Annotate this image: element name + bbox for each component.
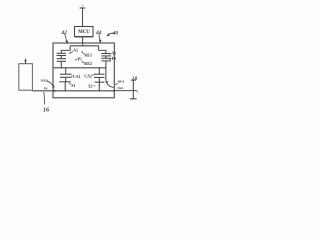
wire A2 to P2 xyxy=(105,56,107,58)
svg-text:RE3: RE3 xyxy=(41,79,48,83)
svg-text:40: 40 xyxy=(112,31,119,37)
svg-text:A1: A1 xyxy=(73,47,78,52)
leader 42 xyxy=(65,34,67,41)
wire right control branch xyxy=(99,46,106,54)
wire supply to MCU xyxy=(82,8,84,27)
leader S1 xyxy=(69,83,71,85)
wire end tick xyxy=(136,91,139,93)
wire CA2 to S2 xyxy=(98,77,100,82)
supply terminal T-bar xyxy=(80,5,86,9)
leader A2 xyxy=(109,53,111,54)
node junction S1/bottom bus xyxy=(64,90,66,92)
bottom bus xyxy=(53,90,114,92)
capacitor P1 xyxy=(57,59,66,62)
terminal 18 xyxy=(130,80,137,99)
node junction S2/bottom bus xyxy=(99,90,101,92)
leader P2 xyxy=(110,58,112,61)
svg-text:42: 42 xyxy=(60,30,67,36)
leader RE3 xyxy=(46,81,53,86)
wire IN xyxy=(32,90,53,92)
reference labels xyxy=(43,30,138,114)
switch S1 xyxy=(59,82,71,91)
svg-text:RE4: RE4 xyxy=(118,80,125,84)
mid bus xyxy=(53,67,106,69)
leader P1 xyxy=(75,59,77,60)
svg-text:P1: P1 xyxy=(78,57,82,62)
wire A1 to P1 xyxy=(60,56,62,59)
capacitor CA1 xyxy=(60,74,72,77)
leader 40 xyxy=(108,33,115,34)
svg-text:S2: S2 xyxy=(88,83,92,88)
controller box MCU xyxy=(75,27,94,37)
scan double line under MCU box xyxy=(75,37,93,39)
wire P2 chain down xyxy=(105,61,107,80)
node junction P1/mid bus xyxy=(61,67,62,68)
big network box 40 xyxy=(53,43,114,98)
leader RE2 xyxy=(83,62,85,63)
wire bus to CA2 xyxy=(98,68,100,74)
svg-text:RE2: RE2 xyxy=(84,61,92,66)
leader A1 xyxy=(70,52,73,53)
svg-text:IN: IN xyxy=(44,86,48,90)
capacitor A1 xyxy=(57,53,66,55)
node output junction xyxy=(113,90,115,92)
switch S2 xyxy=(95,82,105,90)
svg-text:RE1: RE1 xyxy=(84,52,92,57)
wire bus to CA1 xyxy=(65,68,67,74)
leader S2 xyxy=(94,85,96,88)
leader RE4 xyxy=(115,83,117,85)
svg-text:18: 18 xyxy=(132,76,138,82)
wire MCU to network box xyxy=(82,37,84,46)
wire OUT xyxy=(114,90,137,92)
svg-text:44: 44 xyxy=(95,30,102,36)
capacitor CA2 xyxy=(94,74,105,77)
svg-text:CA2: CA2 xyxy=(84,73,92,78)
svg-text:Out: Out xyxy=(117,86,124,90)
svg-text:A2: A2 xyxy=(111,51,116,56)
capacitor P2 xyxy=(101,58,111,61)
svg-text:16: 16 xyxy=(43,106,50,113)
leader RE1 xyxy=(82,52,84,54)
resonator RE3 input element xyxy=(19,64,33,90)
leader 16 xyxy=(43,92,46,104)
wire P1 to mid bus xyxy=(60,61,62,68)
svg-text:CA1: CA1 xyxy=(73,74,81,79)
leader CA1 xyxy=(71,75,73,78)
node input junction xyxy=(53,90,55,92)
leader 44 xyxy=(99,34,100,41)
svg-text:S1: S1 xyxy=(71,83,75,88)
svg-text:P2: P2 xyxy=(112,56,116,61)
arrow above input element xyxy=(25,60,27,64)
wire CA1 to S1 xyxy=(65,77,67,82)
arrowheads for leaders xyxy=(44,33,118,104)
wire arc to output node xyxy=(106,80,114,87)
wire left control branch xyxy=(61,46,70,54)
node junction CA2/mid bus xyxy=(99,67,100,68)
node: control split bus xyxy=(70,45,99,47)
capacitor A2 xyxy=(101,54,111,56)
leader CA2 xyxy=(92,74,94,77)
svg-text:MCU: MCU xyxy=(78,30,90,35)
